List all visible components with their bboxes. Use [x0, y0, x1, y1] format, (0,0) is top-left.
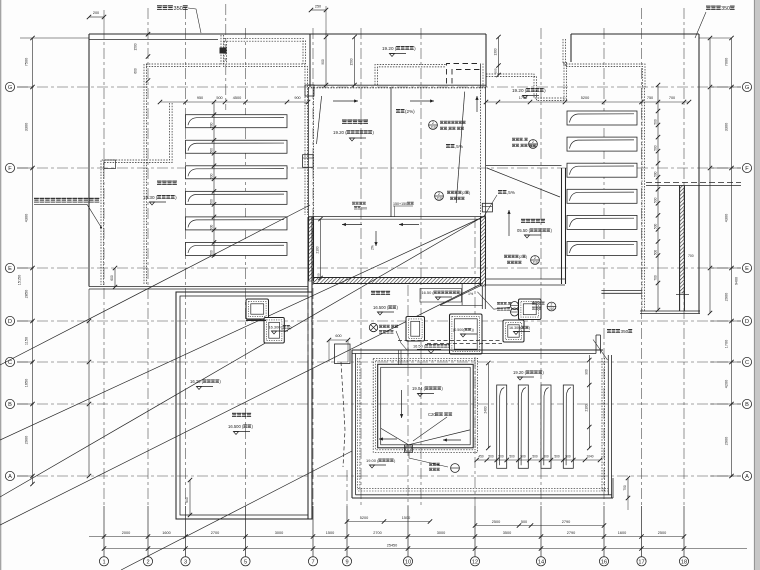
- grid bubble C right: [742, 357, 751, 366]
- dim 600 lower-left: [189, 480, 191, 515]
- svg-text:700: 700: [654, 275, 658, 281]
- lower room note a: [352, 202, 355, 205]
- dim 1500/600 at left wing top: [146, 32, 150, 36]
- grid bubble col 7: [308, 557, 317, 566]
- svg-text:900: 900: [321, 59, 325, 65]
- grid bubble A right: [742, 471, 751, 480]
- svg-text:500: 500: [554, 455, 560, 459]
- svg-text:2: 2: [534, 256, 536, 260]
- svg-text:E: E: [8, 266, 12, 272]
- grid bubble G right: [742, 82, 751, 91]
- svg-text:B: B: [745, 402, 749, 408]
- svg-text:10: 10: [405, 559, 411, 565]
- left wing outline: [89, 33, 486, 35]
- grid bubble col 17: [637, 557, 646, 566]
- svg-text:450: 450: [478, 455, 484, 459]
- right dimension line outer: [709, 38, 711, 313]
- left dimension line: [32, 38, 34, 484]
- svg-text:16.20 (: 16.20 (: [190, 379, 204, 384]
- svg-text:500: 500: [654, 145, 658, 151]
- svg-text:5200: 5200: [360, 516, 368, 520]
- svg-text:(2%): (2%): [405, 109, 415, 114]
- long diagonal leader 5: [0, 283, 483, 525]
- grid col 17 line: [641, 8, 643, 506]
- grid centerline extra b: [420, 28, 422, 506]
- svg-text:500: 500: [210, 122, 214, 128]
- long diagonal leader 3: [0, 216, 485, 498]
- gap parapet dotted lower west extension: [146, 63, 221, 65]
- bottom mass east dotted wall: [601, 358, 603, 491]
- svg-text:17: 17: [638, 559, 644, 565]
- svg-text:,5%: ,5%: [455, 144, 463, 149]
- dashed stub below single skylight: [407, 341, 409, 364]
- svg-text:1650: 1650: [25, 379, 29, 387]
- svg-text:2100: 2100: [316, 246, 320, 253]
- svg-text:F: F: [8, 166, 12, 172]
- grid col 18 line: [683, 8, 685, 506]
- svg-text:700: 700: [669, 96, 675, 100]
- svg-text:4500: 4500: [233, 96, 241, 100]
- dashed corner outline inner: [452, 70, 481, 84]
- svg-text:3300: 3300: [725, 123, 729, 131]
- grid bubble col 5: [241, 557, 250, 566]
- svg-text:7000: 7000: [725, 58, 729, 66]
- svg-text:2100: 2100: [584, 404, 588, 411]
- svg-text:2790: 2790: [562, 520, 570, 524]
- svg-text:700: 700: [688, 254, 694, 258]
- svg-text:16.300(: 16.300(: [509, 326, 522, 330]
- svg-text:1150: 1150: [25, 337, 29, 345]
- svg-text:1300: 1300: [494, 48, 498, 55]
- svg-text:F: F: [745, 166, 749, 172]
- top-left 200 dim: [89, 16, 104, 18]
- dim 1500 vertical: [354, 37, 356, 85]
- svg-text:2400: 2400: [483, 406, 487, 413]
- svg-text:D: D: [745, 319, 749, 325]
- svg-text:J10: J10: [532, 261, 538, 265]
- east mid room detail marker: [531, 256, 540, 265]
- left louvre slat 5: [186, 217, 288, 230]
- dashed slanted lower outline: [341, 362, 345, 467]
- svg-text:500: 500: [520, 455, 526, 459]
- lower-left room outline double: [176, 292, 312, 519]
- svg-text:500: 500: [210, 225, 214, 231]
- svg-text:G: G: [745, 85, 749, 91]
- arrow west room: [333, 100, 358, 102]
- svg-text:750: 750: [647, 96, 653, 100]
- gap parapet dotted vertical at block: [302, 41, 304, 65]
- dashed corner outline outer: [447, 64, 480, 84]
- grid bubble B right: [742, 399, 751, 408]
- svg-text:1600: 1600: [618, 531, 626, 535]
- right wing band east: [646, 182, 741, 184]
- bottom slats vertical dim east: [588, 355, 590, 448]
- connector box east wall: [482, 203, 492, 212]
- grid bubble col 16: [599, 557, 608, 566]
- right wing parapet dotted: [563, 39, 645, 88]
- bottom slats vertical dim west: [487, 363, 489, 448]
- svg-text:500: 500: [494, 68, 498, 73]
- svg-text:C: C: [745, 360, 749, 366]
- svg-text:19.20 (: 19.20 (: [333, 130, 347, 135]
- svg-text:350: 350: [721, 6, 730, 12]
- svg-text:500: 500: [654, 119, 658, 125]
- grid row A line: [17, 475, 741, 477]
- grid bubble C left: [5, 357, 14, 366]
- grid bubble col 10: [403, 557, 412, 566]
- roof fold slant west room: [317, 96, 322, 144]
- svg-text:J10: J10: [549, 307, 555, 311]
- svg-text:7500: 7500: [25, 58, 29, 66]
- right wing dotted west: [563, 62, 565, 100]
- slope text east room: [446, 144, 450, 148]
- central block interior divider vertical: [390, 87, 392, 217]
- svg-text:1500: 1500: [326, 531, 334, 535]
- leader text to skylight: [396, 331, 407, 350]
- gap parapet dotted upper: [224, 38, 305, 40]
- right louvre slat 6: [567, 242, 637, 256]
- pool outer dotted: [373, 358, 477, 452]
- grid row B line: [17, 403, 741, 405]
- duct shaft box: [335, 344, 351, 364]
- left louvre slat 6: [186, 242, 288, 255]
- svg-text:2%: 2%: [371, 245, 375, 250]
- bottom sub dimension row b: [475, 525, 604, 527]
- grid bubble E right: [742, 263, 751, 272]
- central block top edge double: [308, 84, 486, 86]
- small 600 dim left wing bottom: [114, 268, 116, 287]
- grid row F line: [17, 167, 741, 169]
- svg-text:19.00 (: 19.00 (: [366, 458, 379, 463]
- left louvre slat 4: [186, 191, 288, 204]
- east mid room labels: [521, 219, 525, 223]
- svg-text:(2: (2: [462, 191, 465, 195]
- svg-text:900: 900: [294, 96, 300, 100]
- central block west wall double: [308, 87, 310, 217]
- svg-text:19.20 (: 19.20 (: [513, 370, 527, 375]
- grid col 9 line: [346, 470, 348, 506]
- east room east wall double: [561, 168, 563, 284]
- svg-text:16: 16: [601, 559, 607, 565]
- roof fold slant east room: [456, 92, 465, 203]
- arrow east room: [410, 100, 434, 102]
- south wall extension east: [486, 278, 566, 280]
- svg-text:500: 500: [654, 250, 658, 256]
- svg-text:1600: 1600: [162, 531, 170, 535]
- top dimension line west: [160, 101, 309, 103]
- left louvre slat 3: [186, 166, 288, 179]
- left wing parapet dotted A2: [101, 103, 170, 285]
- grid bubble col 2: [143, 557, 152, 566]
- bottom louvre slat 3: [541, 385, 551, 468]
- central block south wall hatch band: [314, 277, 481, 279]
- svg-text:)): )): [471, 328, 473, 332]
- skylight pair east b: [503, 320, 524, 342]
- svg-text:900: 900: [584, 369, 588, 375]
- right louvre slat 2: [567, 137, 637, 151]
- detail marker lower east room: [435, 192, 444, 201]
- leader junction blob: [220, 48, 227, 54]
- svg-text:J10: J10: [430, 126, 436, 130]
- grid bubble D right: [742, 316, 751, 325]
- bottom louvre slat 2: [518, 385, 528, 468]
- terrace label east of block: [371, 291, 375, 295]
- left louvre vertical dim: [213, 102, 215, 257]
- svg-text:1040: 1040: [586, 455, 593, 459]
- svg-text:2900: 2900: [725, 437, 729, 445]
- central block west wall hatch: [309, 217, 314, 281]
- svg-text:350: 350: [173, 6, 182, 12]
- svg-text:): ): [529, 326, 530, 330]
- parapet junction box: [104, 160, 116, 169]
- long diagonal leader 2: [0, 217, 483, 440]
- detail circle right of east pair: [547, 302, 556, 311]
- dim 1300 vertical: [498, 37, 500, 75]
- drain leader to marker: [409, 452, 448, 467]
- svg-text:1: 1: [102, 559, 105, 565]
- svg-text:2900: 2900: [25, 436, 29, 444]
- right louvre slat 4: [567, 189, 637, 203]
- upturned beam note top-left: [157, 5, 162, 10]
- svg-text:500: 500: [543, 455, 549, 459]
- skylight pair east a: [519, 299, 542, 320]
- grid row G line: [17, 86, 741, 88]
- detail marker U east room: [429, 121, 438, 130]
- svg-text:16.300 (: 16.300 (: [269, 325, 284, 330]
- svg-text:2: 2: [551, 303, 553, 307]
- svg-text:14: 14: [538, 559, 544, 565]
- dashed-outline note text: [34, 198, 39, 203]
- svg-text:950: 950: [197, 96, 203, 100]
- bottom mass south edge: [352, 497, 613, 499]
- svg-text:500: 500: [509, 455, 515, 459]
- svg-text:,: ,: [519, 144, 520, 148]
- grid col 16 line: [603, 28, 605, 506]
- block east wall upper stubs: [480, 64, 482, 88]
- bottom mass west dotted inner: [357, 358, 359, 490]
- right louvre slat 5: [567, 215, 637, 229]
- block east wall stub below hatch: [481, 286, 483, 309]
- dim 600 terrace: [329, 339, 348, 341]
- bottom louvre slat 1: [497, 385, 507, 468]
- long diagonal leader 4: [121, 451, 352, 570]
- stub verticals below 16.50 label: [398, 350, 400, 366]
- grid bubble col 14: [536, 557, 545, 566]
- bottom right 750 dim: [627, 478, 629, 498]
- right wing south edge: [640, 310, 700, 312]
- sheet border left: [0, 0, 2, 570]
- pool arrows: [379, 438, 397, 440]
- dashed lower-storey outline terrace: [398, 340, 502, 342]
- rain hopper stacked marker: [511, 302, 519, 310]
- svg-text:05.50 (: 05.50 (: [517, 228, 531, 233]
- bottom mass outline: [352, 349, 603, 351]
- pool double rect: [378, 364, 474, 448]
- svg-text:19.04 (: 19.04 (: [412, 386, 426, 391]
- svg-text:2: 2: [432, 121, 434, 125]
- pool drainage V: [381, 428, 470, 444]
- svg-text:5: 5: [244, 559, 247, 565]
- svg-text:1%: 1%: [468, 292, 474, 296]
- upper roof parapet dotted: [375, 65, 446, 86]
- grid col 1 line: [103, 28, 105, 506]
- bottom dimension lines: [89, 536, 684, 538]
- right louvre vertical dim: [657, 85, 659, 310]
- skylight pair west b: [264, 318, 284, 344]
- svg-text:350: 350: [621, 329, 629, 334]
- svg-text:9: 9: [345, 559, 348, 565]
- grid bubble G left: [5, 82, 14, 91]
- grid bubble col 1: [99, 557, 108, 566]
- lower-left room label: [232, 413, 236, 417]
- svg-text:500: 500: [654, 197, 658, 203]
- grid bubble col 3: [181, 557, 190, 566]
- corner box at block west: [305, 85, 314, 96]
- dim 250 top of block: [311, 9, 326, 11]
- grid centerline extra a: [360, 28, 362, 506]
- bottom slats dim row: [477, 459, 600, 461]
- grid bubble D left: [5, 316, 14, 325]
- west wall long double: [307, 217, 309, 292]
- svg-text:300: 300: [317, 273, 321, 278]
- svg-text:3300: 3300: [25, 123, 29, 131]
- grid bubble F left: [5, 163, 14, 172]
- top dimension line east: [486, 101, 689, 103]
- svg-text:2500: 2500: [492, 520, 500, 524]
- svg-text:4300: 4300: [725, 214, 729, 222]
- left wing parapet dotted B: [221, 35, 305, 215]
- svg-text:B: B: [8, 402, 12, 408]
- bottom mass notch: [595, 335, 597, 354]
- grid col 7 line: [312, 28, 314, 506]
- grid row C line: [17, 361, 741, 363]
- svg-text:500: 500: [498, 455, 504, 459]
- svg-text:3000: 3000: [437, 531, 445, 535]
- svg-text:2000: 2000: [122, 531, 130, 535]
- bottom mass east solid wall: [607, 355, 609, 495]
- svg-text:G: G: [8, 85, 12, 91]
- svg-text:500: 500: [521, 520, 527, 524]
- arrow east room vertical: [476, 96, 478, 112]
- svg-text:C: C: [8, 360, 12, 366]
- grid col 2 line: [147, 8, 149, 506]
- grid row E line: [17, 267, 741, 269]
- svg-text:A: A: [8, 474, 12, 480]
- skylight single mid: [406, 317, 425, 342]
- central block mid divider horizontal: [309, 216, 486, 218]
- svg-text:25450: 25450: [387, 544, 398, 548]
- svg-text:2: 2: [146, 559, 149, 565]
- left louvre slat 1: [186, 115, 288, 128]
- svg-text:2900: 2900: [725, 293, 729, 301]
- slope text near divider: [396, 109, 400, 113]
- svg-text:600: 600: [361, 206, 367, 210]
- svg-text:750: 750: [623, 485, 627, 491]
- svg-text:500: 500: [654, 224, 658, 230]
- svg-text:D: D: [8, 319, 12, 325]
- long diagonal leader 1: [0, 205, 310, 365]
- svg-text:150+150: 150+150: [393, 202, 407, 206]
- skylight S3: [450, 314, 483, 354]
- east room north slant: [487, 168, 560, 197]
- bottom mass south dotted inner: [358, 488, 608, 490]
- svg-text:3: 3: [184, 559, 187, 565]
- level 16.50 under block: [420, 289, 462, 303]
- svg-text:600: 600: [110, 275, 114, 281]
- svg-text:200: 200: [93, 11, 99, 15]
- svg-text:18: 18: [681, 559, 687, 565]
- grid bubble A left: [5, 471, 14, 480]
- grid col 14 line: [540, 28, 542, 506]
- svg-text:600: 600: [335, 334, 341, 338]
- svg-text:19.20 (: 19.20 (: [512, 88, 527, 93]
- svg-text:(2: (2: [519, 255, 522, 259]
- right wing south edge west part: [601, 290, 641, 292]
- svg-text:1700: 1700: [725, 340, 729, 348]
- lower room arrows: [342, 224, 362, 226]
- right dimension line inner: [731, 38, 733, 477]
- svg-text:1500: 1500: [402, 516, 410, 520]
- central block east wall double: [480, 87, 482, 217]
- svg-text:500: 500: [210, 199, 214, 205]
- grid bubble col 18: [679, 557, 688, 566]
- central block east wall hatch: [481, 217, 486, 286]
- svg-text:7: 7: [311, 559, 314, 565]
- svg-text:16.50 (: 16.50 (: [422, 290, 435, 295]
- bottom sub dimension row a: [347, 521, 430, 523]
- svg-text:9400: 9400: [735, 277, 739, 285]
- svg-text:2850: 2850: [25, 290, 29, 298]
- svg-text:16.500 (: 16.500 (: [373, 305, 389, 310]
- dim 900 vertical: [325, 30, 327, 85]
- svg-text:16.50 (: 16.50 (: [413, 344, 426, 349]
- grid bubble B left: [5, 399, 14, 408]
- svg-text:250: 250: [315, 5, 321, 9]
- svg-text:,: ,: [447, 127, 448, 131]
- grid bubble E left: [5, 263, 14, 272]
- sheet gray margin right: [755, 0, 760, 570]
- svg-text:(0.500(: (0.500(: [453, 328, 465, 332]
- grid bubble F right: [742, 163, 751, 172]
- right louvre slat 3: [567, 163, 637, 177]
- slope leader to wall corner: [498, 190, 502, 194]
- svg-text:12: 12: [472, 559, 478, 565]
- connector box west wall: [303, 155, 314, 168]
- svg-text:A: A: [745, 474, 749, 480]
- unlabelled centerline x226: [225, 4, 227, 110]
- right louvre slat 1: [567, 111, 637, 125]
- svg-text:3500: 3500: [503, 531, 511, 535]
- parapet dotted steps center-right: [486, 74, 566, 98]
- svg-text:-: -: [507, 302, 508, 306]
- svg-text:1500: 1500: [350, 58, 354, 65]
- upturned beam note top-right: [706, 6, 711, 10]
- svg-text:2: 2: [438, 192, 440, 196]
- svg-text:1500: 1500: [134, 43, 138, 50]
- right wing outline top: [571, 33, 699, 35]
- svg-text:19.30 (: 19.30 (: [143, 195, 158, 200]
- west room label: [342, 120, 347, 125]
- grid row D line: [17, 320, 741, 322]
- svg-text:600: 600: [185, 497, 189, 503]
- grid col 5 line: [245, 28, 247, 506]
- gap parapet dotted vertical mid: [223, 41, 225, 64]
- svg-text:4200: 4200: [725, 380, 729, 388]
- svg-text:4300: 4300: [25, 214, 29, 222]
- pool drain box: [405, 445, 413, 453]
- sheet border right line: [753, 0, 755, 570]
- bottom louvre slat 4: [563, 385, 573, 468]
